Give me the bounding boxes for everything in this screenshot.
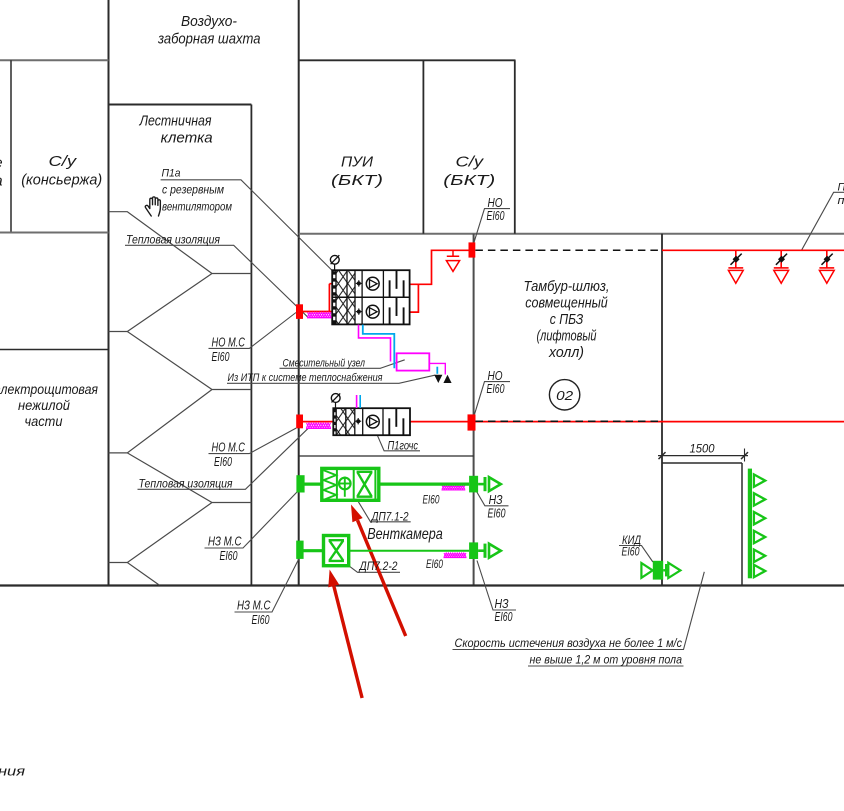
svg-text:пр: пр xyxy=(838,195,844,207)
svg-text:EI60: EI60 xyxy=(214,454,233,469)
svg-text:части: части xyxy=(25,413,63,429)
svg-text:с ПБЗ: с ПБЗ xyxy=(550,312,584,328)
svg-text:(консьержа): (консьержа) xyxy=(21,173,102,189)
svg-text:с резервным: с резервным xyxy=(162,185,224,197)
svg-text:(лифтовый: (лифтовый xyxy=(537,329,597,345)
svg-text:а: а xyxy=(0,174,3,190)
svg-text:е: е xyxy=(0,156,3,172)
svg-text:нежилой: нежилой xyxy=(18,397,70,413)
svg-text:НО М.С: НО М.С xyxy=(212,440,246,455)
svg-text:EI60: EI60 xyxy=(212,349,231,364)
svg-text:EI60: EI60 xyxy=(252,612,271,627)
svg-text:ПУИ: ПУИ xyxy=(341,155,374,171)
svg-text:Из ИТП к системе теплоснабжен: Из ИТП к системе теплоснабжения xyxy=(228,372,383,384)
svg-text:Пр: Пр xyxy=(838,182,844,194)
svg-text:не выше 1,2 м от уровня пола: не выше 1,2 м от уровня пола xyxy=(530,653,683,667)
svg-text:EI60: EI60 xyxy=(622,545,640,559)
svg-text:EI60: EI60 xyxy=(423,495,440,507)
svg-text:ДП7.2-2: ДП7.2-2 xyxy=(358,561,398,573)
svg-text:Воздухо-: Воздухо- xyxy=(181,14,237,30)
svg-text:НЗ М.С: НЗ М.С xyxy=(208,534,242,549)
svg-text:вентилятором: вентилятором xyxy=(162,202,232,214)
svg-text:Электрощитовая: Электрощитовая xyxy=(0,381,98,397)
svg-text:(БКТ): (БКТ) xyxy=(443,173,495,189)
svg-text:Тепловая изоляция: Тепловая изоляция xyxy=(126,234,220,246)
svg-text:ДП7.1-2: ДП7.1-2 xyxy=(370,511,409,523)
svg-text:EI60: EI60 xyxy=(487,381,506,396)
svg-text:клетка: клетка xyxy=(161,130,213,146)
svg-text:Скорость истечения воздуха не: Скорость истечения воздуха не более 1 м/… xyxy=(455,636,683,650)
svg-text:С/у: С/у xyxy=(456,155,484,171)
svg-text:совмещенный: совмещенный xyxy=(525,296,608,312)
svg-text:НЗ М.С: НЗ М.С xyxy=(237,598,271,613)
svg-text:(БКТ): (БКТ) xyxy=(331,173,383,189)
svg-text:Смесительный узел: Смесительный узел xyxy=(283,358,366,370)
svg-text:НО М.С: НО М.С xyxy=(212,334,246,349)
svg-text:02: 02 xyxy=(556,388,574,403)
svg-text:EI60: EI60 xyxy=(487,208,506,223)
svg-text:ния: ния xyxy=(0,764,25,779)
svg-text:EI60: EI60 xyxy=(488,506,507,521)
svg-text:1500: 1500 xyxy=(690,442,715,456)
svg-text:Венткамера: Венткамера xyxy=(367,526,443,543)
svg-text:EI60: EI60 xyxy=(220,548,239,563)
svg-text:EI60: EI60 xyxy=(495,609,514,624)
svg-text:холл): холл) xyxy=(548,345,584,361)
svg-text:EI60: EI60 xyxy=(426,559,443,571)
svg-text:Тепловая изоляция: Тепловая изоляция xyxy=(139,478,233,490)
svg-text:Лестничная: Лестничная xyxy=(139,113,212,129)
svg-text:П1а: П1а xyxy=(162,168,181,180)
svg-text:П1гочс: П1гочс xyxy=(388,441,419,453)
svg-text:Тамбур-шлюз,: Тамбур-шлюз, xyxy=(524,279,610,295)
svg-text:заборная шахта: заборная шахта xyxy=(157,31,260,47)
svg-text:С/у: С/у xyxy=(49,154,77,170)
